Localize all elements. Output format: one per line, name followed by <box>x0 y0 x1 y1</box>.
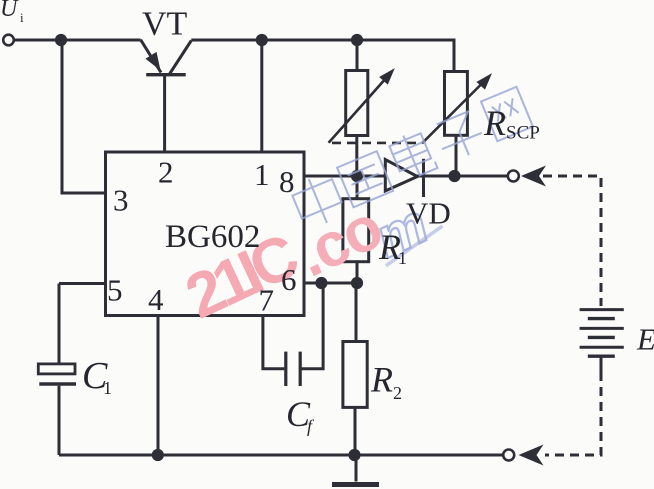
svg-text:R: R <box>370 360 393 400</box>
svg-text:3: 3 <box>113 183 129 218</box>
svg-text:U: U <box>0 0 19 22</box>
svg-text:8: 8 <box>279 164 295 199</box>
svg-text:R: R <box>483 103 506 143</box>
svg-text:VT: VT <box>142 6 188 43</box>
svg-text:5: 5 <box>107 273 123 308</box>
svg-text:2: 2 <box>158 155 174 190</box>
svg-text:SCP: SCP <box>506 123 540 144</box>
svg-text:E: E <box>636 322 654 357</box>
svg-text:1: 1 <box>103 378 112 398</box>
svg-text:7: 7 <box>259 283 275 318</box>
svg-text:2: 2 <box>393 383 402 403</box>
svg-text:1: 1 <box>254 157 270 192</box>
svg-text:6: 6 <box>281 262 297 297</box>
svg-text:4: 4 <box>148 282 164 317</box>
svg-text:i: i <box>20 10 24 25</box>
svg-text:BG602: BG602 <box>165 219 260 255</box>
svg-text:VD: VD <box>406 196 451 231</box>
svg-text:1: 1 <box>398 248 407 268</box>
svg-text:f: f <box>307 416 315 436</box>
